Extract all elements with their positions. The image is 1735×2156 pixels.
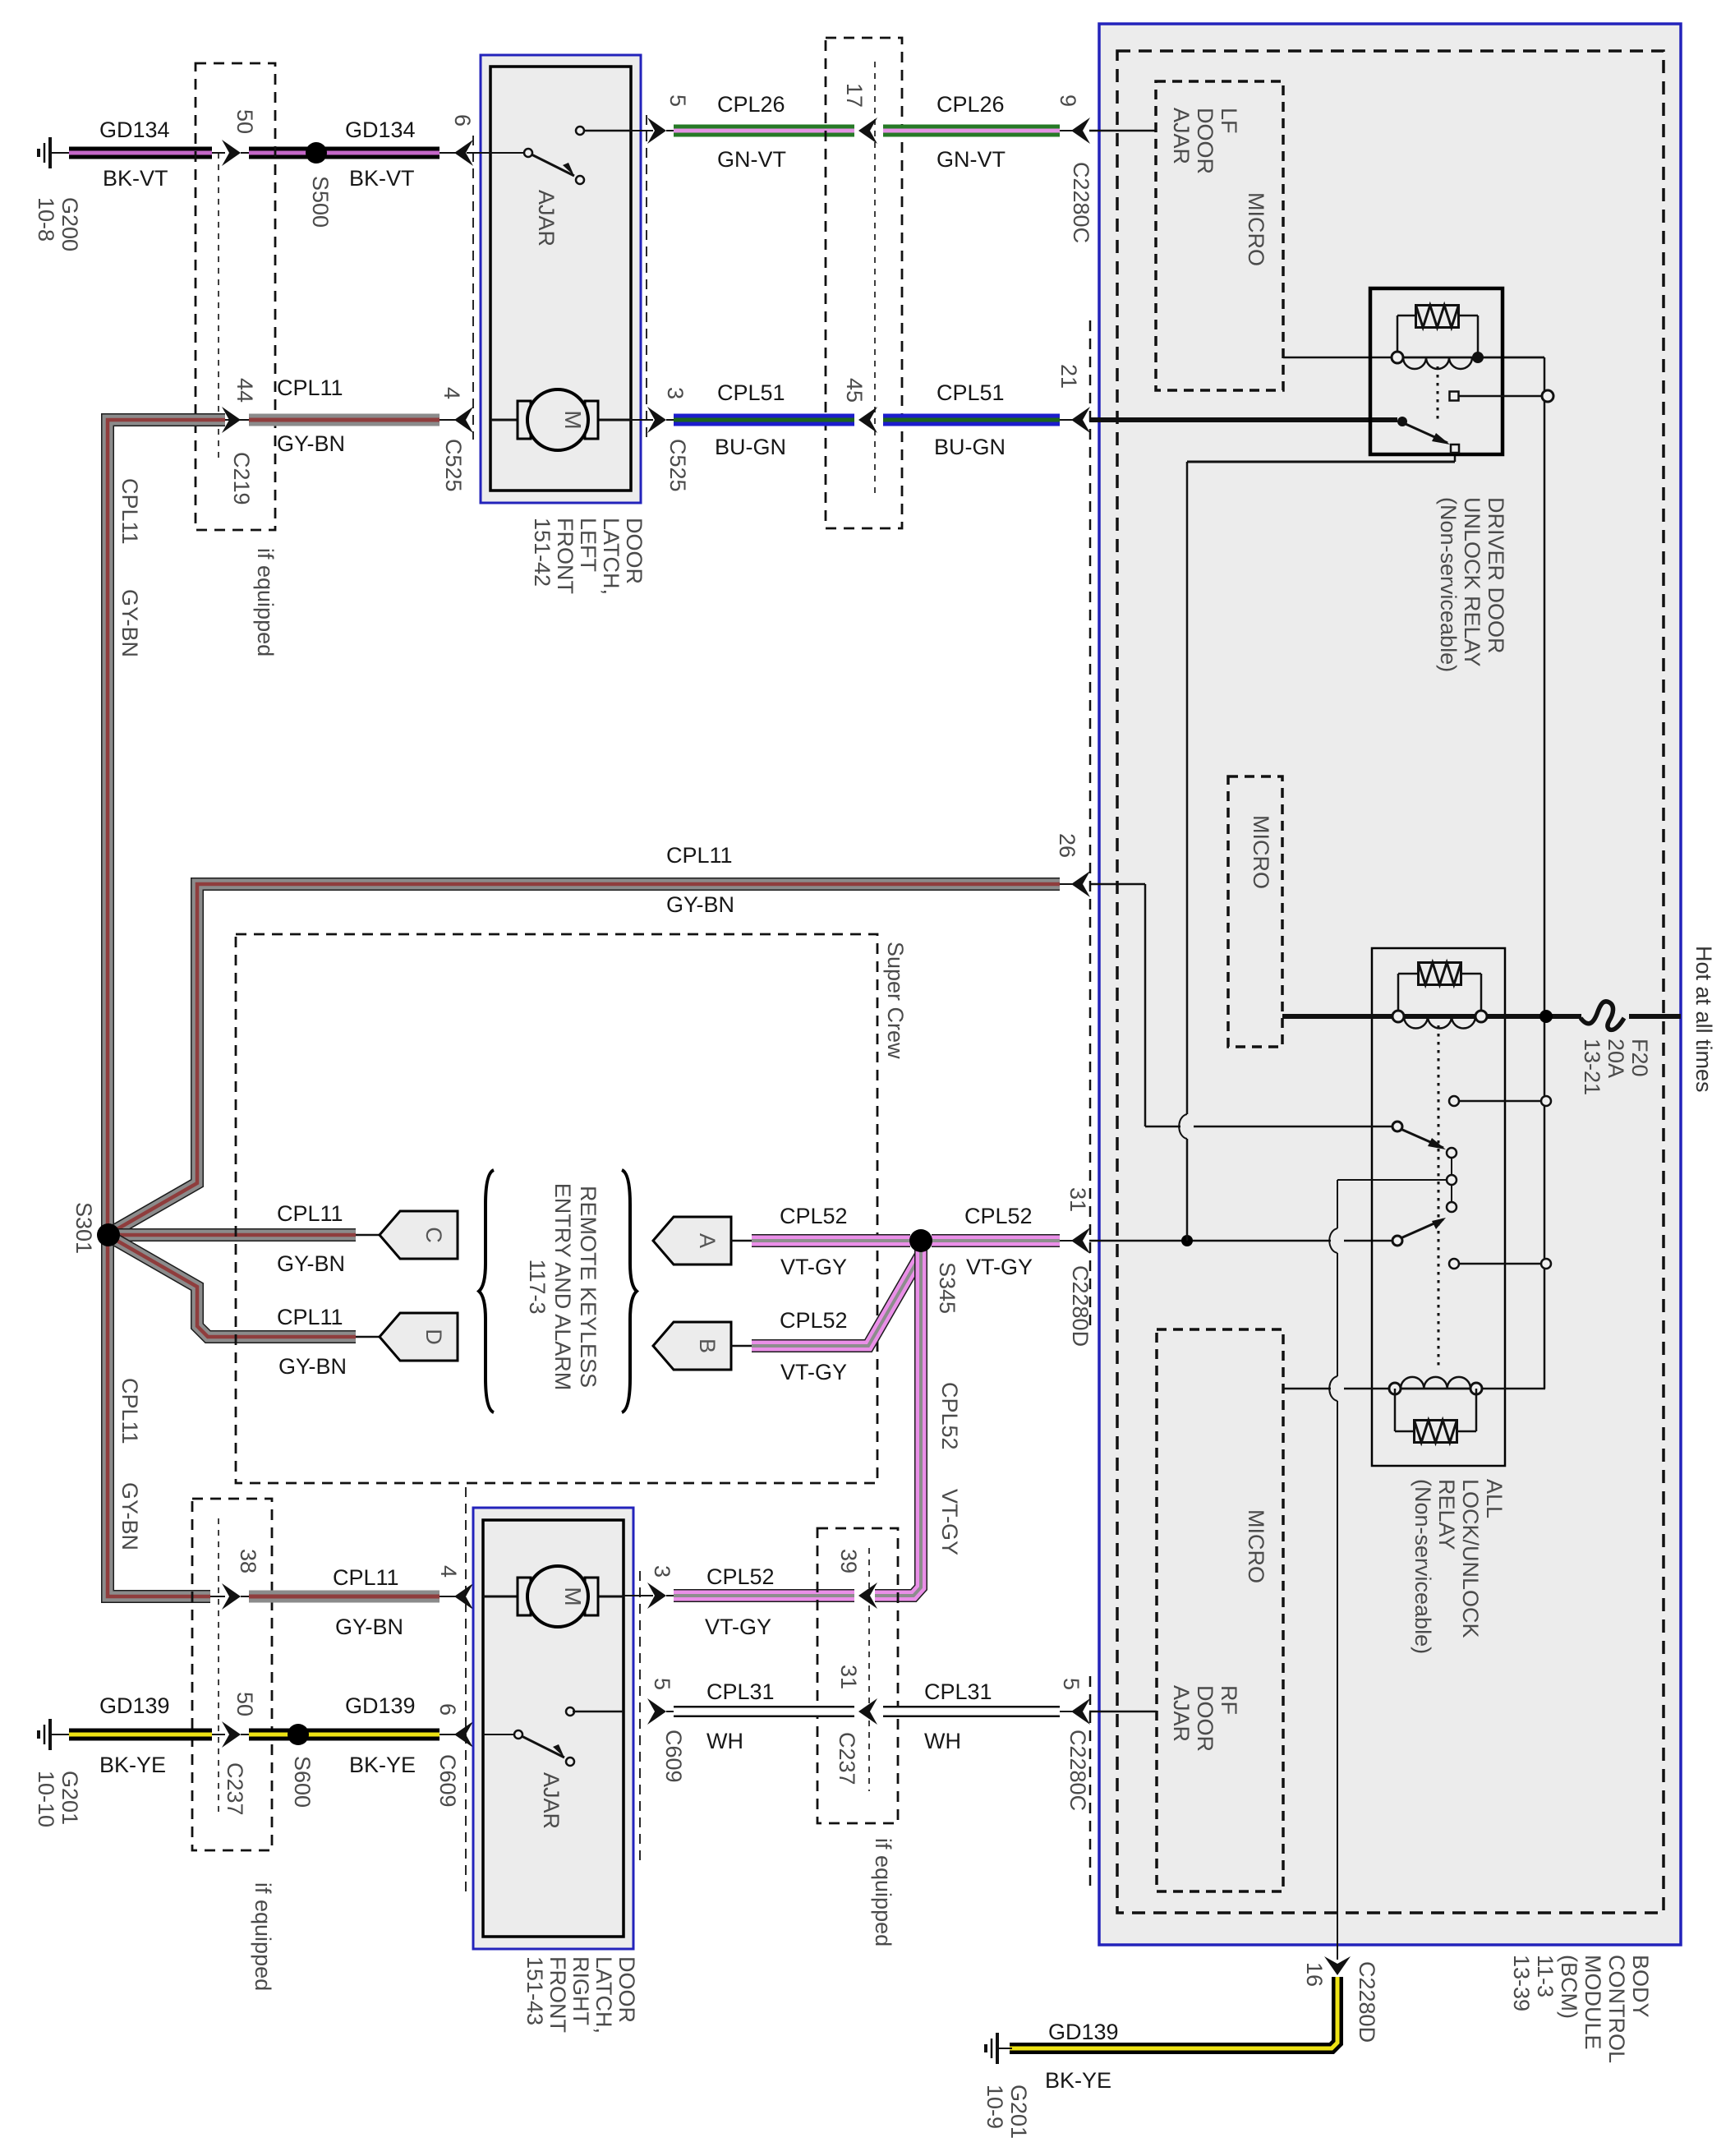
svg-text:VT-GY: VT-GY [937, 1489, 962, 1555]
svg-text:21: 21 [1056, 364, 1081, 389]
relay2 armature A [1145, 1126, 1393, 1128]
wire CPL52 VT-GY latch2 to connector 39 [666, 1595, 674, 1596]
resistor of relay1 [1416, 306, 1459, 328]
wire GD139 BK-YE segment 1 [69, 1729, 212, 1741]
splice S500 [306, 142, 327, 164]
svg-text:GD139: GD139 [1048, 2020, 1119, 2044]
door latch pin 6 arrow [454, 140, 473, 166]
svg-text:B: B [695, 1338, 720, 1353]
svg-text:WH: WH [706, 1729, 743, 1753]
wire pin26 lead [1089, 883, 1145, 886]
svg-text:BU-GN: BU-GN [715, 435, 786, 459]
svg-text:GD134: GD134 [99, 117, 170, 142]
BCM pin 16 arrow down [1324, 1956, 1351, 1975]
BCM pin 21 arrow [1071, 407, 1090, 433]
latch2 pin 5 arrow [647, 1698, 666, 1725]
svg-text:9: 9 [1056, 94, 1080, 107]
svg-text:BK-YE: BK-YE [1045, 2068, 1111, 2093]
svg-text:WH: WH [924, 1729, 961, 1753]
splice S345 [909, 1229, 932, 1252]
svg-text:3: 3 [650, 1565, 674, 1578]
svg-text:BK-YE: BK-YE [349, 1753, 416, 1777]
svg-text:GY-BN: GY-BN [117, 589, 142, 657]
coil of relay2 bottom [1283, 1388, 1545, 1390]
right brace [622, 1170, 637, 1412]
svg-text:C: C [421, 1227, 446, 1243]
junction dot on pin31 lead [1181, 1235, 1193, 1246]
latch pin 3 arrow [647, 407, 666, 433]
svg-text:Hot at all times: Hot at all times [1691, 946, 1716, 1093]
wire CPL52 S345 to BCM pin 31 [932, 1234, 1060, 1247]
wire pin9 lead to MICRO1 [1089, 130, 1156, 132]
svg-text:39: 39 [836, 1549, 861, 1573]
svg-text:MICRO: MICRO [1249, 815, 1273, 889]
connector C237 cavity 50 arrow [222, 1721, 241, 1748]
CPL11 branch to D flag [108, 1236, 356, 1337]
svg-text:if equipped: if equipped [871, 1838, 895, 1946]
wire CPL26 GN-VT segment 2 [883, 125, 1060, 137]
svg-text:CPL52: CPL52 [937, 1382, 962, 1450]
wire CPL31 WH segment 2 [883, 1706, 1060, 1717]
svg-text:C2280D: C2280D [1355, 1961, 1379, 2043]
Super Crew dashed box [236, 934, 877, 1483]
svg-text:4: 4 [436, 1565, 461, 1578]
svg-text:6: 6 [435, 1703, 460, 1716]
latch pin 4 arrow [454, 407, 473, 433]
svg-text:AJAR: AJAR [534, 190, 559, 246]
svg-text:S500: S500 [308, 176, 333, 228]
svg-text:DOORLATCH,RIGHTFRONT151-43: DOORLATCH,RIGHTFRONT151-43 [522, 1956, 639, 2034]
splice S600 [288, 1724, 309, 1745]
svg-text:CPL31: CPL31 [924, 1679, 992, 1704]
latch pin 5 arrow [647, 117, 666, 144]
ground G201 10-10 [48, 1719, 52, 1750]
svg-text:CPL11: CPL11 [277, 375, 343, 400]
svg-text:GD139: GD139 [345, 1693, 416, 1718]
svg-text:16: 16 [1302, 1962, 1327, 1987]
wire CPL26 GN-VT segment 1 [666, 130, 674, 131]
left brace [479, 1170, 494, 1412]
AJAR switch latch1 [467, 152, 524, 154]
svg-text:CPL52: CPL52 [780, 1308, 848, 1333]
svg-text:C525: C525 [441, 439, 466, 492]
motor latch1 [490, 419, 518, 422]
svg-text:GY-BN: GY-BN [277, 431, 345, 456]
flag B [653, 1322, 731, 1370]
wire CPL51 BU-GN segment 2 [883, 414, 1060, 426]
fuse F20 [1581, 1004, 1629, 1029]
ground G200 [48, 137, 52, 168]
hop over pin31 lead [1331, 1228, 1344, 1253]
wire GD134 BK-VT segment 1 [69, 147, 212, 159]
wire CPL51 BU-GN segment 1 [666, 419, 674, 421]
connector C219 cavity 45 arrow [858, 407, 877, 433]
connector C237 cavity 39 arrow [858, 1582, 877, 1609]
svg-text:DRIVER DOORUNLOCK RELAY(Non-se: DRIVER DOORUNLOCK RELAY(Non-serviceable) [1436, 497, 1508, 672]
motor latch2 [483, 1596, 518, 1598]
wire from relay1 armature output down [1186, 462, 1189, 1241]
svg-text:C2280C: C2280C [1069, 162, 1093, 243]
svg-text:5: 5 [650, 1678, 674, 1690]
svg-text:S345: S345 [935, 1262, 960, 1314]
wire pin31 lead to relay2 armature B [1089, 1240, 1393, 1242]
svg-text:CPL52: CPL52 [964, 1204, 1033, 1228]
svg-text:Super Crew: Super Crew [883, 942, 908, 1059]
if equipped dashed box 3 (C237) [192, 1499, 272, 1850]
svg-text:CPL52: CPL52 [780, 1204, 848, 1228]
MICRO 3 dashed box [1157, 1329, 1283, 1891]
svg-text:31: 31 [1065, 1187, 1090, 1212]
wire CPL52 from A to S345 [752, 1234, 910, 1247]
ground G201 10-9 [996, 2033, 999, 2064]
latch2 pin 6 arrow [454, 1721, 473, 1748]
svg-text:C219: C219 [229, 452, 254, 505]
svg-text:GY-BN: GY-BN [335, 1615, 403, 1639]
BCM pin 5 arrow [1071, 1698, 1090, 1725]
svg-text:CPL52: CPL52 [706, 1564, 775, 1589]
svg-text:4: 4 [440, 387, 464, 399]
svg-text:S301: S301 [71, 1202, 96, 1254]
flag D [356, 1336, 382, 1338]
svg-text:GY-BN: GY-BN [117, 1482, 142, 1550]
svg-text:BK-YE: BK-YE [99, 1753, 166, 1777]
relay1 armature [1397, 417, 1407, 426]
svg-text:GY-BN: GY-BN [666, 892, 734, 917]
svg-text:CPL11: CPL11 [277, 1305, 343, 1329]
svg-text:if equipped: if equipped [251, 1882, 275, 1991]
wire CPL52 S345 down to latch2 [875, 1249, 921, 1596]
if equipped dashed box (C219) [196, 63, 275, 530]
dotted actuator link relay2 [1438, 1025, 1440, 1366]
svg-text:GD134: GD134 [345, 117, 416, 142]
svg-text:5: 5 [665, 94, 690, 107]
svg-text:3: 3 [663, 387, 688, 399]
svg-text:17: 17 [842, 83, 867, 108]
connector C219 cavity 17 arrow [858, 117, 877, 144]
svg-text:C525: C525 [665, 439, 690, 492]
latch2 pin 4 arrow [454, 1583, 473, 1610]
latch2 pin 3 arrow [647, 1582, 666, 1609]
svg-text:C609: C609 [661, 1730, 686, 1783]
hop of x1445 line over armatureA lead [1180, 1114, 1194, 1139]
hop over coil2 lead [1331, 1376, 1344, 1401]
svg-text:M: M [560, 1587, 586, 1605]
svg-text:50: 50 [232, 1692, 257, 1716]
svg-text:C237: C237 [835, 1732, 859, 1785]
wire pin5 lead to MICRO3 [1089, 1711, 1157, 1713]
coil of relay2 top [1404, 1016, 1475, 1018]
BCM body control module box [1099, 24, 1681, 1945]
svg-text:if equipped: if equipped [253, 548, 278, 656]
svg-text:A: A [695, 1233, 720, 1248]
svg-text:GD139: GD139 [99, 1693, 170, 1718]
C219 connector dashed line [218, 153, 219, 458]
wire CPL11 GY-BN to latch2 [241, 1596, 249, 1597]
svg-text:MICRO: MICRO [1244, 1509, 1268, 1583]
relay2 ALL LOCK/UNLOCK RELAY box [1372, 948, 1505, 1466]
relay1 DRIVER DOOR UNLOCK RELAY box [1370, 288, 1503, 454]
wire GD139 BK-YE from pin16 to G201 [1010, 1977, 1337, 2048]
svg-text:50: 50 [232, 109, 257, 134]
svg-text:CPL26: CPL26 [937, 92, 1005, 117]
svg-text:44: 44 [232, 378, 257, 403]
svg-text:CPL11: CPL11 [666, 843, 733, 868]
hot feed line y1237 [1282, 1014, 1681, 1019]
svg-text:MICRO: MICRO [1244, 192, 1268, 266]
svg-text:45: 45 [842, 378, 867, 403]
svg-text:S600: S600 [290, 1756, 315, 1808]
svg-text:C2280D: C2280D [1068, 1265, 1093, 1347]
wire GD134 BK-VT segment 2 [241, 152, 249, 154]
svg-text:VT-GY: VT-GY [780, 1360, 847, 1384]
flag C [356, 1234, 382, 1237]
long CPL11 wire from connector 44 down to S301 and latch2 [108, 420, 225, 1596]
wire GD139 BK-YE segment 2 [241, 1734, 249, 1735]
if equipped dashed box 2 (C219) [826, 38, 902, 528]
wire CPL52 from B to S345 [752, 1255, 921, 1346]
relay2 contact line upper [1458, 1100, 1540, 1103]
line to pin 16 [1337, 1180, 1338, 1956]
svg-text:BK-VT: BK-VT [103, 166, 168, 191]
svg-text:CPL11: CPL11 [117, 478, 142, 545]
middle contact column [1447, 1148, 1457, 1158]
connector C219 cavity 50 arrow [222, 140, 241, 166]
svg-text:6: 6 [450, 114, 475, 127]
CPL11 branch to C flag [115, 1228, 356, 1242]
svg-text:GY-BN: GY-BN [277, 1251, 345, 1276]
relay2 armature B [1392, 1236, 1402, 1246]
splice S301 [97, 1223, 120, 1246]
svg-text:CPL11: CPL11 [117, 1378, 142, 1444]
relay2 contact line lower [1458, 1263, 1540, 1265]
flag A [653, 1217, 731, 1265]
svg-text:C609: C609 [435, 1754, 460, 1808]
wire relay1 coil to feed line [1478, 357, 1544, 359]
svg-text:38: 38 [236, 1549, 260, 1573]
wire CPL31 WH segment 1 [666, 1711, 674, 1712]
MICRO 2 dashed box [1228, 776, 1282, 1047]
C2280 connector dashed line at BCM edge [1089, 320, 1092, 1331]
vertical feed line x1880 [1544, 357, 1546, 1389]
resistor of relay2 top [1419, 963, 1461, 985]
BCM pin 31 arrow [1071, 1228, 1090, 1254]
BCM pin 9 arrow [1071, 117, 1090, 144]
relay1 output horizontal y562 [1187, 461, 1455, 463]
svg-text:CPL51: CPL51 [937, 380, 1005, 405]
DOOR LATCH RIGHT FRONT box [473, 1508, 633, 1949]
svg-text:GN-VT: GN-VT [717, 147, 786, 172]
dotted actuator link relay1 [1437, 366, 1439, 419]
svg-text:VT-GY: VT-GY [705, 1615, 771, 1639]
CPL11 branch up to BCM pin 26 [108, 884, 1060, 1234]
AJAR switch latch2 [483, 1734, 514, 1735]
connector C237 cavity 38 arrow [210, 1596, 225, 1597]
svg-text:CPL51: CPL51 [717, 380, 785, 405]
svg-text:CPL26: CPL26 [717, 92, 785, 117]
svg-text:BK-VT: BK-VT [349, 166, 415, 191]
svg-text:26: 26 [1055, 833, 1079, 858]
svg-text:D: D [421, 1329, 446, 1345]
svg-text:CPL11: CPL11 [277, 1201, 343, 1226]
svg-text:CPL11: CPL11 [333, 1565, 399, 1590]
svg-text:C237: C237 [223, 1762, 247, 1816]
relay1 NO contact [1450, 392, 1459, 401]
DOOR LATCH LEFT FRONT box [481, 55, 641, 503]
if equipped dashed box 4 (C237) [817, 1528, 898, 1823]
wire MICRO1 to relay1 coil [1283, 357, 1544, 359]
BCM pin 26 arrow [1071, 871, 1090, 897]
svg-text:5: 5 [1059, 1678, 1084, 1690]
wire CPL11 GY-BN from connector 44 to latch [225, 419, 249, 421]
wire pin21 lead to relay1 [1089, 417, 1397, 422]
svg-text:BU-GN: BU-GN [934, 435, 1006, 459]
svg-text:C2280C: C2280C [1065, 1730, 1090, 1811]
C525 dashed lines [472, 136, 474, 440]
svg-text:M: M [560, 410, 586, 429]
connector C237 cavity 31 arrow [858, 1698, 877, 1725]
svg-text:GN-VT: GN-VT [937, 147, 1006, 172]
svg-text:VT-GY: VT-GY [966, 1255, 1033, 1279]
MICRO 1 dashed box [1156, 81, 1283, 390]
svg-text:GY-BN: GY-BN [278, 1354, 347, 1379]
resistor of relay2 bottom [1415, 1421, 1457, 1443]
svg-text:AJAR: AJAR [539, 1772, 564, 1829]
junction dot fuse/feed [1539, 1010, 1553, 1023]
coil of relay1 [1403, 357, 1472, 359]
svg-text:31: 31 [836, 1665, 861, 1689]
svg-text:G20110-10: G20110-10 [34, 1771, 82, 1827]
svg-text:CPL31: CPL31 [706, 1679, 775, 1704]
svg-text:VT-GY: VT-GY [780, 1255, 847, 1279]
